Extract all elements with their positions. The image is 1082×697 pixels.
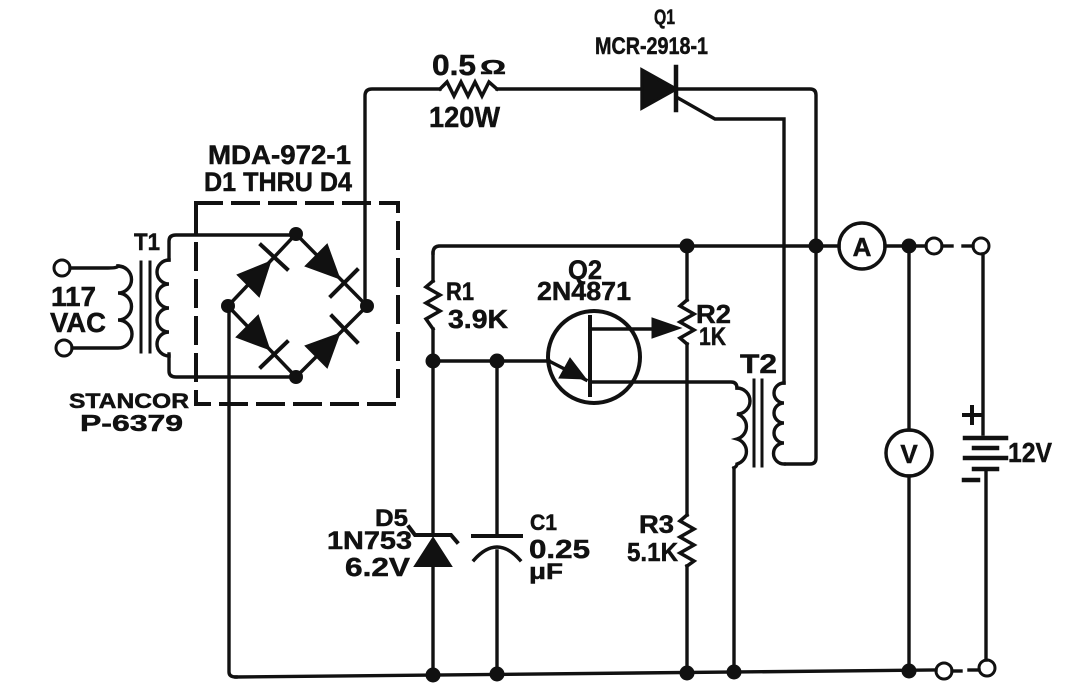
diode D3 cathode bar [261,342,287,367]
resistor R1 [426,281,440,329]
node dot T2 on bottom rail [727,665,742,680]
svg-text:R1: R1 [446,278,474,306]
transformer T2 primary coil [734,388,750,468]
wire: resistor to SCR anode [497,87,642,90]
node dot C1 on bottom rail [490,667,505,682]
node dot cathode wire on rail [809,239,824,254]
wire: voltmeter branch from rail down [907,254,910,430]
SCR gate wire down to T2 secondary top [678,98,784,383]
ammeter rail (right part) [885,244,926,247]
node dot R1/D5 [426,354,441,369]
svg-text:R3: R3 [639,511,674,539]
node dot D5 on bottom rail [426,668,441,683]
svg-text:VAC: VAC [50,307,106,338]
svg-text:12V: 12V [1008,437,1052,468]
wire: T1 secondary top to bridge top node [169,235,296,260]
wire: node to zener D5 top [431,368,434,533]
svg-text:120W: 120W [429,102,501,134]
Q2 base1 wire to T2 primary [590,382,737,388]
transformer T2 secondary coil [774,383,784,464]
bridge edge bottom-right [296,306,367,377]
svg-text:T2: T2 [740,349,777,379]
wire: rail down to R2 [685,246,688,300]
diode D2 cathode bar [331,270,357,296]
transformer T2 core [754,380,762,466]
battery plate long 2 [965,456,1006,461]
capacitor C1 top plate [473,534,521,538]
R2 wiper arrowhead [652,318,681,338]
svg-text:1K: 1K [699,323,726,351]
wire: R1 bottom to node [431,329,434,361]
wire: R3 bottom to bottom rail [685,566,688,673]
wire: T2 primary bottom down to bottom rail [732,468,735,673]
SCR Q1 triangle [642,70,676,108]
bridge edge left-bottom [228,306,296,377]
dashed box around bridge rectifier [196,203,398,404]
wire: battery terminal down to battery plus plate [981,254,984,434]
battery plus sign [964,407,980,423]
wire: R2 bottom to R3 top (crosses B1 wire) [685,344,688,515]
svg-text:A: A [853,232,872,262]
node dot R2 top on rail [680,239,695,254]
wire: SCR cathode right and down to T2 secondary bottom [676,89,816,464]
wire: battery minus down to bottom terminal [984,471,987,660]
bridge node left [221,299,235,313]
resistor R3 [680,515,694,566]
bridge node bottom [289,370,303,384]
wire: top terminal to T1 primary [70,266,118,268]
Q2 base bar [588,317,592,395]
resistor 0.5 ohm 120W [440,82,497,96]
wire: bridge minus node down to bottom rail [229,306,236,677]
battery 12V plate long 1 [965,436,1006,441]
wire: bridge + node up to top rail [365,89,440,306]
bridge node right [360,299,374,313]
svg-text:C1: C1 [530,510,557,535]
wire: voltmeter bottom down to bottom rail [907,476,910,671]
battery top terminal circle [973,238,989,254]
svg-text:1N753: 1N753 [327,527,412,555]
wire: C1 bottom to bottom rail [495,551,498,674]
ammeter rail (left part) [433,246,839,253]
zener D5 cathode bar with bent ends [409,527,457,542]
Q2 base2 wire to R2 wiper [590,327,652,330]
bridge node top [289,227,303,241]
wire: rail corner down to R1 [431,253,434,281]
wire: node to C1 top plate [495,368,498,534]
Q2 emitter diagonal wire [549,361,586,380]
diode D1 cathode bar [261,245,287,269]
transistor Q2 circle [548,311,640,403]
output terminal circle top left [926,238,942,254]
terminal circle: 117VAC bottom [56,340,72,356]
svg-text:MCR-2918-1: MCR-2918-1 [595,33,708,60]
diode D4 triangle (bottom to right) [306,334,339,367]
svg-text:T1: T1 [134,229,160,256]
wire stub right of bottom battery terminal gap [969,668,979,671]
svg-text:Q1: Q1 [654,6,675,29]
diode D4 cathode bar [332,316,357,342]
bridge edge left-top [228,234,296,306]
transformer T1 primary coil [72,266,132,348]
battery plate short 1 [974,446,997,451]
svg-text:0.5: 0.5 [432,50,476,82]
transformer T1 secondary coil [157,260,169,356]
ammeter A circle [839,223,885,269]
transformer T1 core [141,262,150,352]
capacitor C1 curved plate [474,547,520,560]
wire stub right of top terminal [942,244,952,247]
node dot voltmeter on bottom rail [902,664,917,679]
output terminal circle bottom left [936,663,952,679]
svg-text:5.1K: 5.1K [627,537,678,567]
wire: T1 secondary bottom to bridge bottom node [169,354,296,377]
battery minus sign [964,478,978,483]
svg-text:P-6379: P-6379 [80,410,183,436]
diode D1 triangle (left to top) [238,262,270,296]
svg-text:6.2V: 6.2V [345,552,411,582]
bridge edge top-right [296,234,367,306]
voltmeter V circle [886,430,932,476]
svg-text:2N4871: 2N4871 [537,276,631,306]
node dot C1 top [490,354,505,369]
bottom rail [236,670,936,677]
SCR Q1 cathode bar [674,67,679,110]
wire stub right of bottom output terminal [952,669,961,672]
Q2 emitter arrowhead [559,358,586,379]
wire: zener D5 bottom to bottom rail [431,566,434,675]
svg-text:D1 THRU D4: D1 THRU D4 [204,167,352,197]
wire stub left of battery top terminal [963,244,973,247]
zener D5 triangle [415,538,451,566]
node dot R3 on bottom rail [680,666,695,681]
svg-text:μF: μF [529,559,563,584]
diode D3 triangle (left to bottom) [237,316,269,349]
battery plate short 2 [974,467,997,472]
wire: node line at y=361 to Q2 emitter [433,359,549,362]
diode D2 triangle (top to right) [306,245,339,278]
node dot voltmeter branch on rail [902,239,917,254]
svg-text:V: V [900,439,918,469]
resistor R2 [680,300,694,344]
battery bottom terminal circle [979,660,995,676]
svg-text:Ω: Ω [480,57,506,79]
svg-text:3.9K: 3.9K [448,304,508,334]
terminal circle: 117VAC top [54,260,70,276]
svg-text:MDA-972-1: MDA-972-1 [208,140,351,170]
